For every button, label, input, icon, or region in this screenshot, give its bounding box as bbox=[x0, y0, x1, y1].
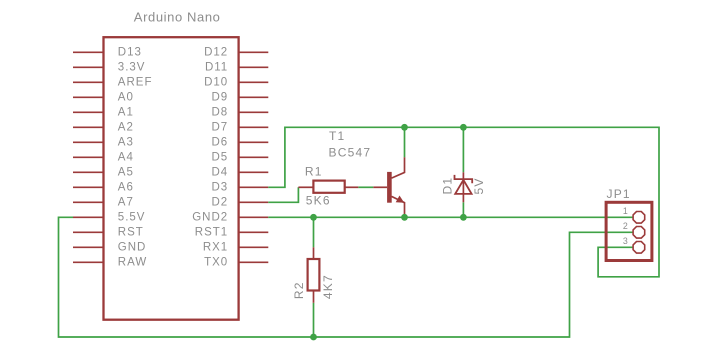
svg-text:D10: D10 bbox=[204, 77, 228, 89]
svg-text:1: 1 bbox=[623, 206, 628, 216]
junction diode-bottom-rail bbox=[460, 214, 467, 221]
junction diode-top-rail bbox=[460, 124, 467, 131]
pin stub right D5 bbox=[239, 156, 269, 158]
wire net 5.5V down left side along bottom up to JP1 pin 2 bbox=[59, 217, 633, 337]
svg-text:D9: D9 bbox=[211, 92, 228, 104]
connector JP1 pad 2 bbox=[633, 227, 645, 239]
svg-text:RX1: RX1 bbox=[203, 242, 228, 254]
svg-text:A7: A7 bbox=[118, 197, 134, 209]
transistor T1 base pin bbox=[373, 186, 387, 188]
pin stub left A2 bbox=[73, 126, 104, 128]
svg-text:R1: R1 bbox=[305, 164, 323, 178]
svg-text:A3: A3 bbox=[118, 137, 134, 149]
svg-text:5.5V: 5.5V bbox=[118, 212, 146, 224]
svg-text:TX0: TX0 bbox=[204, 257, 228, 269]
pin stub right D6 bbox=[239, 141, 269, 143]
pin stub right D11 bbox=[239, 66, 269, 68]
transistor T1 base bar bbox=[387, 172, 392, 203]
svg-text:D13: D13 bbox=[118, 47, 142, 59]
svg-text:D11: D11 bbox=[205, 62, 228, 74]
transistor T1 emitter line bbox=[392, 196, 405, 217]
Arduino Nano IC body bbox=[104, 37, 239, 320]
connector JP1 body bbox=[606, 202, 652, 260]
transistor T1 emitter arrowhead bbox=[396, 196, 405, 203]
pin stub right TX0 bbox=[239, 261, 269, 263]
pin stub left A4 bbox=[73, 156, 104, 158]
pin stub right D3 bbox=[239, 186, 269, 188]
pin stub left RAW bbox=[73, 261, 104, 263]
pin stub left A0 bbox=[73, 96, 104, 98]
svg-text:AREF: AREF bbox=[118, 77, 153, 89]
resistor R1 right lead bbox=[345, 186, 359, 188]
svg-text:3: 3 bbox=[623, 236, 628, 246]
wire R2 top lead to GND2 rail bbox=[313, 217, 315, 247]
svg-text:RST: RST bbox=[118, 227, 144, 239]
svg-text:BC547: BC547 bbox=[329, 145, 372, 159]
junction collector-top-rail bbox=[401, 124, 408, 131]
svg-text:D6: D6 bbox=[211, 137, 228, 149]
svg-text:D1: D1 bbox=[441, 177, 455, 195]
wire R1 right to T1 base bbox=[358, 186, 373, 188]
connector JP1 pad 3 bbox=[633, 242, 645, 254]
pin stub right D10 bbox=[239, 81, 269, 83]
diode D1 anode triangle bbox=[455, 180, 471, 194]
pin stub left A7 bbox=[73, 201, 104, 203]
pin stub left A5 bbox=[73, 171, 104, 173]
svg-text:D2: D2 bbox=[211, 197, 228, 209]
svg-text:A6: A6 bbox=[118, 182, 134, 194]
resistor R2 body bbox=[308, 259, 320, 291]
svg-text:D3: D3 bbox=[211, 182, 228, 194]
svg-text:5V: 5V bbox=[472, 177, 486, 194]
svg-text:D7: D7 bbox=[211, 122, 228, 134]
svg-text:GND2: GND2 bbox=[192, 212, 228, 224]
svg-text:D8: D8 bbox=[211, 107, 228, 119]
svg-text:RST1: RST1 bbox=[195, 227, 228, 239]
junction R2-GND2-rail bbox=[310, 214, 317, 221]
pin stub right D8 bbox=[239, 111, 269, 113]
pin stub left A6 bbox=[73, 186, 104, 188]
wire net from D3 to top rail, right side down to JP1 pin 3 bbox=[268, 127, 659, 276]
pin stub left GND bbox=[73, 246, 104, 248]
svg-text:5K6: 5K6 bbox=[306, 193, 331, 207]
wire net from D2 to R1 left pin bbox=[268, 187, 298, 202]
svg-text:R2: R2 bbox=[292, 281, 306, 299]
pin stub left A1 bbox=[73, 111, 104, 113]
junction emitter-rail bbox=[401, 214, 408, 221]
svg-text:A4: A4 bbox=[118, 152, 134, 164]
pin stub left RST bbox=[73, 231, 104, 233]
pin stub right RX1 bbox=[239, 246, 269, 248]
resistor R2 bottom lead bbox=[313, 291, 315, 303]
pin stub right D12 bbox=[239, 51, 269, 53]
svg-text:T1: T1 bbox=[329, 129, 345, 143]
svg-text:4K7: 4K7 bbox=[321, 274, 335, 299]
pin stub right GND2 bbox=[239, 216, 269, 218]
wire T1 collector to top rail bbox=[404, 127, 406, 157]
svg-text:Arduino Nano: Arduino Nano bbox=[134, 10, 221, 25]
connector JP1 pad 1 bbox=[633, 212, 645, 224]
wire net GND2 emitter rail to JP1 pin 1 bbox=[268, 216, 633, 218]
diode D1 lead through symbol bbox=[462, 172, 464, 202]
pin stub left A3 bbox=[73, 141, 104, 143]
pin stub left 3.3V bbox=[73, 66, 104, 68]
svg-text:2: 2 bbox=[623, 221, 628, 231]
pin stub right D2 bbox=[239, 201, 269, 203]
svg-text:RAW: RAW bbox=[118, 257, 147, 269]
svg-text:3.3V: 3.3V bbox=[118, 62, 146, 74]
svg-text:D4: D4 bbox=[211, 167, 228, 179]
pin stub right D7 bbox=[239, 126, 269, 128]
wire R2 bottom lead to bottom rail bbox=[313, 303, 315, 337]
pin stub right RST1 bbox=[239, 231, 269, 233]
pin stub left D13 bbox=[73, 51, 104, 53]
junction R2-bottom-rail bbox=[310, 334, 317, 341]
pin stub right D9 bbox=[239, 96, 269, 98]
svg-text:A0: A0 bbox=[118, 92, 134, 104]
pin stub left AREF bbox=[73, 81, 104, 83]
wire D1 bottom to GND2 rail bbox=[462, 202, 464, 217]
svg-text:GND: GND bbox=[118, 242, 147, 254]
resistor R2 top lead bbox=[313, 247, 315, 259]
svg-text:A2: A2 bbox=[118, 122, 134, 134]
resistor R1 left lead bbox=[298, 186, 313, 188]
pin stub left 5.5V bbox=[73, 216, 104, 218]
svg-text:JP1: JP1 bbox=[607, 187, 631, 201]
svg-text:A1: A1 bbox=[118, 107, 134, 119]
svg-text:D5: D5 bbox=[211, 152, 228, 164]
transistor T1 collector line bbox=[392, 157, 405, 178]
svg-text:D12: D12 bbox=[204, 47, 228, 59]
svg-text:A5: A5 bbox=[118, 167, 134, 179]
resistor R1 body bbox=[313, 181, 344, 193]
wire D1 top to top rail bbox=[462, 127, 464, 172]
diode D1 zener cathode bar bbox=[455, 175, 473, 183]
pin stub right D4 bbox=[239, 171, 269, 173]
